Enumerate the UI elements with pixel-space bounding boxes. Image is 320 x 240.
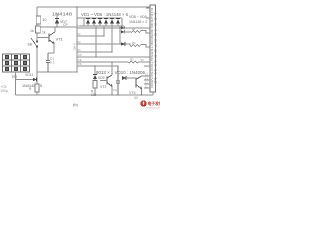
wire matrix v x104 [103,26,105,36]
svg-text:1N4148: 1N4148 [52,12,73,17]
resistor R6 squiggle [128,61,139,63]
diode VD11 [33,78,37,82]
wire matrix h y36 [77,35,104,37]
wire matrix h y44 [77,43,121,45]
diode VD9 [121,42,125,46]
diode VD8 [121,26,125,29]
keypad buttons [5,55,27,71]
transistor VT1 [37,32,55,44]
wire diode row corner [121,18,123,26]
IC U1 internal text [150,8,157,88]
svg-text:3V: 3V [134,96,139,100]
svg-text:R2: R2 [132,41,136,45]
svg-text:VD11: VD11 [25,73,33,77]
IC U1 box [150,5,156,92]
wire diode VD9 out [125,44,130,46]
svg-text:S 401: S 401 [73,43,77,51]
wire left rail upper [36,7,38,42]
svg-text:10µ: 10µ [113,88,118,92]
wire matrix v x120 [119,26,121,44]
wire matrix h y52 [77,51,112,53]
wire matrix v x96 [95,26,97,57]
diode VD7 [55,13,59,27]
label pin numbers [145,73,148,89]
resistor R1 [36,16,41,24]
svg-text:VT2: VT2 [100,85,106,89]
capacitor C2 [116,66,120,95]
svg-text:1k: 1k [42,31,46,35]
wire VT2 collector [111,62,113,75]
wire R5 to rail [94,88,96,95]
IC U1 pin stubs [144,8,150,88]
wire VT4 collector [142,75,145,77]
wire horizontal y27 [39,26,77,28]
wire bottom rail [37,94,153,96]
diode VD3 [98,19,102,26]
svg-text:1 2 3 4 5 6 7 8 9 10 11 12: 1 2 3 4 5 6 7 8 9 10 11 12 [153,12,157,85]
svg-text:VD8 ~ VD9: VD8 ~ VD9 [129,15,147,19]
resistor R5 [93,81,97,89]
transistor VT4 [132,76,142,89]
matrix wires [77,26,150,57]
wire to IC pin y46 [141,45,151,48]
transistor VT2 [100,75,112,87]
svg-text:R1: R1 [132,27,136,31]
wire horizontal y72 [37,71,77,73]
resistor R2 [36,26,41,33]
diode VD5 [110,19,114,26]
wire IC bottom to rail [152,92,154,95]
svg-text:1k: 1k [30,29,34,33]
svg-text:O1: O1 [77,24,81,28]
wire VT2 emitter [111,87,113,96]
svg-text:VD9: VD9 [98,76,105,80]
wire top rail [37,6,150,8]
junction dots matrix [95,27,121,58]
svg-text:VT1: VT1 [56,37,64,42]
diode VD1 [86,19,90,26]
wire matrix h y28 [77,27,121,29]
resistor R6 [35,84,39,92]
svg-text:(b): (b) [73,102,79,107]
svg-text:200µ: 200µ [1,89,8,93]
wire VT1 emitter down [48,44,54,54]
keypad panel [3,54,30,72]
svg-text:O2: O2 [77,32,81,36]
svg-text:VD1 ~ VD6 : 1N4148 × 6: VD1 ~ VD6 : 1N4148 × 6 [81,12,129,17]
svg-text:0.1: 0.1 [50,61,55,65]
wire horizontal y66 [77,65,118,67]
wire diode row left closure [83,18,85,26]
switch S1 [31,38,38,47]
wire matrix h y57 [77,56,150,58]
svg-text:10: 10 [42,17,47,22]
wire diode VD9b out [125,31,130,33]
wire mid vertical rail [76,7,78,72]
svg-text:电子发烧友: 电子发烧友 [148,101,161,106]
wire diode row top rail [77,17,122,19]
resistor R4 squiggle [130,45,141,47]
junction dots rails [47,6,142,95]
wire diode row bottom rail [80,25,124,27]
wire matrix h y28 out [125,27,150,29]
svg-text:9013 × 1 VD10 : 1N4006: 9013 × 1 VD10 : 1N4006 [96,70,146,75]
wire left rail lower [36,47,38,96]
capacitor C1 [46,53,50,72]
diode VD2 [92,19,96,26]
svg-text:elecfans.com: elecfans.com [148,107,161,109]
wire bottom rail left extension [16,94,38,96]
wire VT4 emitter [141,89,143,95]
keypad button centers [6,56,25,69]
svg-text:1N4148 × 2: 1N4148 × 2 [129,20,147,24]
svg-text:CP: CP [63,23,68,27]
svg-text:O5: O5 [78,53,82,57]
wire horizontal y62 [77,61,150,63]
diode VD4 [104,19,108,26]
watermark logo [140,100,166,109]
wire x95 drop [94,66,96,74]
resistor R3 squiggle [130,31,141,33]
wire to IC pin y31 [141,31,151,34]
svg-text:O3: O3 [77,40,81,44]
diode VD12 [93,75,97,81]
svg-text:100: 100 [91,93,97,97]
svg-text:VT3: VT3 [129,91,135,95]
diode VD6 [116,19,120,26]
svg-text:(a): (a) [12,74,18,79]
svg-text:SB: SB [28,43,33,47]
svg-text:O4: O4 [77,48,81,52]
wire keypad common horizontal [16,79,34,81]
svg-text:R3: R3 [130,58,134,62]
diode VD10 [122,76,132,80]
wire VT1 collector up [54,27,56,32]
wire matrix v x112 [111,26,113,52]
diode VD9b [121,30,125,33]
wire keypad common down [15,72,17,95]
svg-text:5V: 5V [141,58,145,62]
